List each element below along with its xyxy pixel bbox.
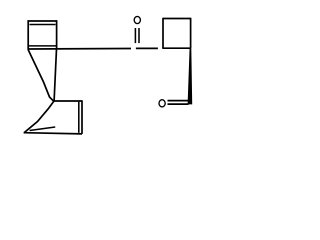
ring3 diagonal D-A bbox=[24, 101, 54, 132]
ring1 left edge bbox=[27, 20, 29, 50]
aldehyde C=O line 2 bbox=[168, 103, 189, 105]
ring3 right double bond inner line bbox=[78, 102, 80, 133]
ring1 top edge bbox=[28, 20, 58, 22]
ring3 bottom double bond inner line bbox=[30, 127, 56, 131]
ring2 top edge bbox=[163, 18, 191, 20]
bond ring1 BL to spiro A bbox=[28, 50, 54, 102]
ring3 bottom edge D-C bbox=[24, 133, 82, 134]
wedge bond ring2 BR to aldehyde C bbox=[188, 48, 193, 105]
ring1 top double bond inner line bbox=[30, 24, 56, 26]
ring1 right edge bbox=[56, 20, 58, 49]
ring2 bottom edge bbox=[162, 47, 190, 49]
ketone C=O line 2 bbox=[138, 28, 140, 43]
ring2 left edge bbox=[162, 18, 164, 48]
ring2 right edge bbox=[190, 18, 192, 48]
atom label O ketone bbox=[134, 16, 140, 23]
ketone C=O line 1 bbox=[134, 28, 136, 43]
ring1 bottom double bond inner line bbox=[28, 45, 57, 47]
bond ketone to ring2 bbox=[136, 47, 158, 49]
ring3 top edge A-B bbox=[54, 100, 82, 102]
bond chain long (ring1 bottom edge to ketone) bbox=[28, 48, 132, 51]
ring3 right edge B-C bbox=[81, 100, 83, 134]
atom label O aldehyde bbox=[159, 100, 165, 107]
aldehyde C=O line 1 bbox=[168, 100, 189, 102]
bond ring1 BR to spiro A bbox=[54, 49, 56, 101]
